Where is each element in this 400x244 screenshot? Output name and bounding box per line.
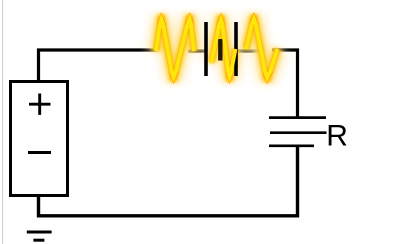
spark bolt 3 core (right) bbox=[246, 15, 278, 81]
spark gap right electrode bbox=[234, 22, 238, 76]
spark bolts glow (mid saturated halo) bbox=[156, 15, 278, 81]
ground symbol bbox=[27, 232, 52, 240]
capacitor R plates bbox=[269, 118, 327, 146]
spark bolt 1 core (left, double peak) bbox=[156, 15, 194, 81]
spark bolt tips (yellow points) bbox=[158, 14, 272, 83]
battery B1 body bbox=[11, 82, 68, 196]
wire: top-left corner from battery top up and right to spark gap bbox=[39, 50, 157, 83]
svg-text:R: R bbox=[326, 119, 348, 152]
wire: capacitor R bottom to bottom wire and back to battery bottom bbox=[39, 146, 298, 216]
spark bolt 2 core (between electrodes) bbox=[212, 16, 236, 81]
faint page border line (left edge artifact) bbox=[2, 0, 4, 244]
battery minus sign bbox=[28, 151, 51, 154]
spark bolt tips (orange underlay) bbox=[157, 12, 273, 85]
spark gap left electrode bbox=[204, 22, 208, 76]
wire: stub right of right electrode under right bolt bbox=[237, 49, 261, 52]
wire: stub between bolt1 and left electrode bbox=[188, 49, 205, 52]
spark gap middle bar bbox=[218, 39, 222, 61]
spark bolts glow (inner orange) bbox=[156, 15, 278, 81]
battery plus sign bbox=[29, 94, 51, 115]
wire: top-right corner down to capacitor R top plate bbox=[272, 50, 298, 117]
spark bolts glow (outermost cream halo) bbox=[156, 15, 278, 81]
